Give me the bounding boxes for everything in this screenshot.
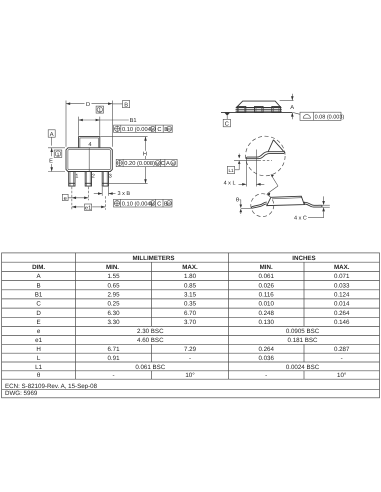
svg-text:3.15: 3.15 (184, 292, 197, 299)
svg-text:0.071: 0.071 (334, 273, 350, 280)
svg-text:H: H (36, 346, 40, 353)
svg-text:D: D (86, 102, 90, 108)
svg-text:0.0905 BSC: 0.0905 BSC (286, 328, 320, 335)
svg-text:0.65: 0.65 (107, 282, 120, 289)
table row theta (37, 372, 347, 379)
svg-text:B: B (124, 103, 128, 109)
dimension 4 x C (294, 196, 330, 221)
table row e1 (35, 337, 318, 344)
svg-text:6.70: 6.70 (184, 310, 197, 317)
side view foot 2 (255, 107, 264, 113)
svg-text:10°: 10° (337, 372, 347, 379)
svg-text:1: 1 (75, 173, 78, 179)
svg-text:3.30: 3.30 (107, 319, 120, 326)
dimension A (280, 94, 295, 120)
dimension E (48, 148, 65, 172)
svg-text:0.146: 0.146 (334, 319, 350, 326)
svg-text:M: M (167, 201, 170, 206)
tab (pin 4) (79, 137, 100, 148)
table row B (37, 282, 350, 289)
svg-text:-: - (265, 372, 267, 379)
theta view right lead (304, 202, 322, 207)
svg-text:3: 3 (109, 173, 112, 179)
svg-text:E: E (37, 319, 41, 326)
svg-text:0.116: 0.116 (259, 292, 275, 299)
svg-text:θ: θ (37, 372, 41, 379)
package body (top view) (66, 148, 112, 172)
svg-text:10°: 10° (185, 372, 195, 379)
note flag 1 under D (96, 106, 103, 114)
detail body edge (268, 140, 285, 153)
svg-text:0.08 (0.003): 0.08 (0.003) (315, 114, 345, 120)
svg-text:MIN.: MIN. (106, 264, 119, 271)
dimension 3 x B (94, 191, 131, 197)
svg-text:0.10 (0.004): 0.10 (0.004) (122, 200, 153, 207)
svg-text:B: B (37, 282, 41, 289)
table row e (37, 328, 320, 335)
dimension e1 (72, 204, 106, 212)
lead center lines (72, 187, 106, 210)
dimension 4 x L (224, 150, 265, 187)
dimension D (66, 101, 112, 147)
datum flag C (223, 113, 230, 128)
svg-text:0.91: 0.91 (107, 355, 120, 362)
svg-text:3.70: 3.70 (184, 319, 197, 326)
table row C (36, 301, 350, 308)
svg-text:4 x L: 4 x L (224, 180, 236, 186)
svg-text:0.264: 0.264 (258, 346, 274, 353)
svg-text:0.10 (0.004): 0.10 (0.004) (122, 126, 153, 133)
svg-text:H: H (143, 152, 147, 158)
table row A (37, 273, 350, 280)
svg-text:MILLIMETERS: MILLIMETERS (133, 255, 175, 262)
dimension H (101, 137, 148, 184)
svg-text:6.71: 6.71 (107, 346, 120, 353)
svg-text:2: 2 (92, 173, 95, 179)
svg-text:e: e (64, 196, 67, 202)
svg-text:4.60 BSC: 4.60 BSC (137, 337, 164, 344)
svg-text:e1: e1 (85, 206, 91, 212)
svg-text:0.124: 0.124 (334, 292, 350, 299)
table row B1 (35, 292, 350, 299)
theta seating line (241, 207, 252, 209)
side view lead band (236, 109, 282, 111)
note flag 1 near E (54, 150, 62, 158)
svg-text:-: - (112, 372, 114, 379)
svg-text:M: M (167, 127, 170, 132)
svg-text:0.014: 0.014 (334, 301, 350, 308)
svg-text:e1: e1 (35, 337, 42, 344)
svg-text:C: C (161, 161, 165, 167)
svg-text:D: D (36, 310, 41, 317)
svg-text:A: A (290, 105, 294, 111)
svg-text:0.036: 0.036 (258, 355, 274, 362)
svg-text:0.010: 0.010 (258, 301, 274, 308)
svg-text:0.25: 0.25 (107, 301, 120, 308)
svg-text:1.80: 1.80 (184, 273, 197, 280)
svg-text:θ: θ (236, 196, 239, 203)
svg-text:E: E (49, 158, 53, 164)
feature control frame FCF3 (lead position) (114, 199, 173, 207)
svg-text:C: C (225, 121, 229, 127)
svg-text:L1: L1 (35, 364, 42, 371)
svg-text:C: C (157, 201, 161, 207)
svg-text:C: C (157, 127, 161, 133)
svg-text:C: C (36, 301, 41, 308)
datum flag B (112, 101, 129, 109)
lead 3 (102, 172, 108, 187)
svg-text:DWG: 5969: DWG: 5969 (5, 390, 38, 397)
table row D (36, 310, 350, 317)
svg-text:0.248: 0.248 (258, 310, 274, 317)
svg-text:A: A (166, 161, 170, 167)
svg-text:MIN.: MIN. (260, 264, 273, 271)
svg-text:6.30: 6.30 (107, 310, 120, 317)
theta view left lead (251, 202, 266, 208)
svg-text:B1: B1 (35, 292, 43, 299)
svg-text:DIM.: DIM. (32, 264, 45, 271)
side view body (236, 101, 281, 107)
svg-text:0.033: 0.033 (334, 282, 350, 289)
detail circle (245, 136, 285, 176)
theta view body (267, 196, 305, 205)
theta view detail circle (251, 194, 274, 217)
svg-text:B1: B1 (130, 118, 137, 124)
svg-text:L1: L1 (228, 168, 234, 173)
svg-text:-: - (341, 355, 343, 362)
svg-text:M: M (151, 127, 154, 132)
svg-text:INCHES: INCHES (292, 255, 315, 262)
feature control frame FCF4 (seating plane) (293, 112, 344, 120)
svg-text:0.130: 0.130 (258, 319, 274, 326)
datum flag A (48, 130, 55, 146)
pin numbers (75, 173, 111, 179)
svg-text:M: M (156, 161, 159, 166)
svg-text:M: M (172, 161, 175, 166)
svg-text:MAX.: MAX. (182, 264, 198, 271)
detail seating plane line (234, 159, 272, 161)
svg-text:4: 4 (88, 142, 91, 148)
dimension L1 (227, 154, 240, 174)
feature control frame FCF2 (lead tip position) (116, 159, 177, 167)
svg-text:-: - (189, 355, 191, 362)
table header DIM MIN MAX (32, 264, 350, 271)
svg-text:1: 1 (57, 152, 60, 158)
svg-text:0.0024 BSC: 0.0024 BSC (286, 364, 320, 371)
detail lead profile (247, 152, 285, 159)
svg-text:0.287: 0.287 (334, 346, 350, 353)
svg-text:4 x C: 4 x C (294, 215, 307, 221)
svg-text:0.181 BSC: 0.181 BSC (288, 337, 318, 344)
svg-text:2.30 BSC: 2.30 BSC (137, 328, 164, 335)
dimension e (62, 194, 88, 202)
dimension theta (236, 196, 242, 215)
svg-text:1: 1 (98, 108, 101, 114)
svg-text:MAX.: MAX. (334, 264, 350, 271)
svg-text:M: M (151, 201, 154, 206)
svg-text:0.026: 0.026 (258, 282, 274, 289)
svg-text:0.061 BSC: 0.061 BSC (135, 364, 165, 371)
zigzag detail leader (266, 174, 278, 195)
side view foot 3 (272, 107, 281, 113)
feature control frame FCF1 (tab position) (114, 125, 173, 133)
side view foot 1 (237, 107, 246, 113)
lead 1 (69, 172, 75, 187)
table row L (37, 355, 343, 362)
seating plane line (221, 111, 292, 113)
table row L1 (35, 364, 320, 371)
svg-text:0.85: 0.85 (184, 282, 197, 289)
svg-text:7.29: 7.29 (184, 346, 197, 353)
table header MILLIMETERS / INCHES (133, 255, 316, 262)
dimension B1 (79, 117, 137, 136)
svg-text:0.264: 0.264 (334, 310, 350, 317)
svg-text:0.35: 0.35 (184, 301, 197, 308)
dimension table frame (2, 253, 380, 398)
svg-text:e: e (37, 328, 41, 335)
center line body (88, 148, 90, 171)
svg-text:L: L (37, 355, 41, 362)
table row H (36, 346, 350, 353)
lead 2 (85, 172, 91, 187)
table row E (37, 319, 350, 326)
svg-text:2.95: 2.95 (107, 292, 120, 299)
svg-text:3 x B: 3 x B (118, 191, 131, 197)
svg-text:A: A (50, 132, 54, 138)
svg-text:1.55: 1.55 (107, 273, 120, 280)
lead 3 edge extension lines (102, 187, 108, 196)
svg-text:0.061: 0.061 (258, 273, 274, 280)
svg-text:0.20 (0.008): 0.20 (0.008) (124, 160, 155, 167)
